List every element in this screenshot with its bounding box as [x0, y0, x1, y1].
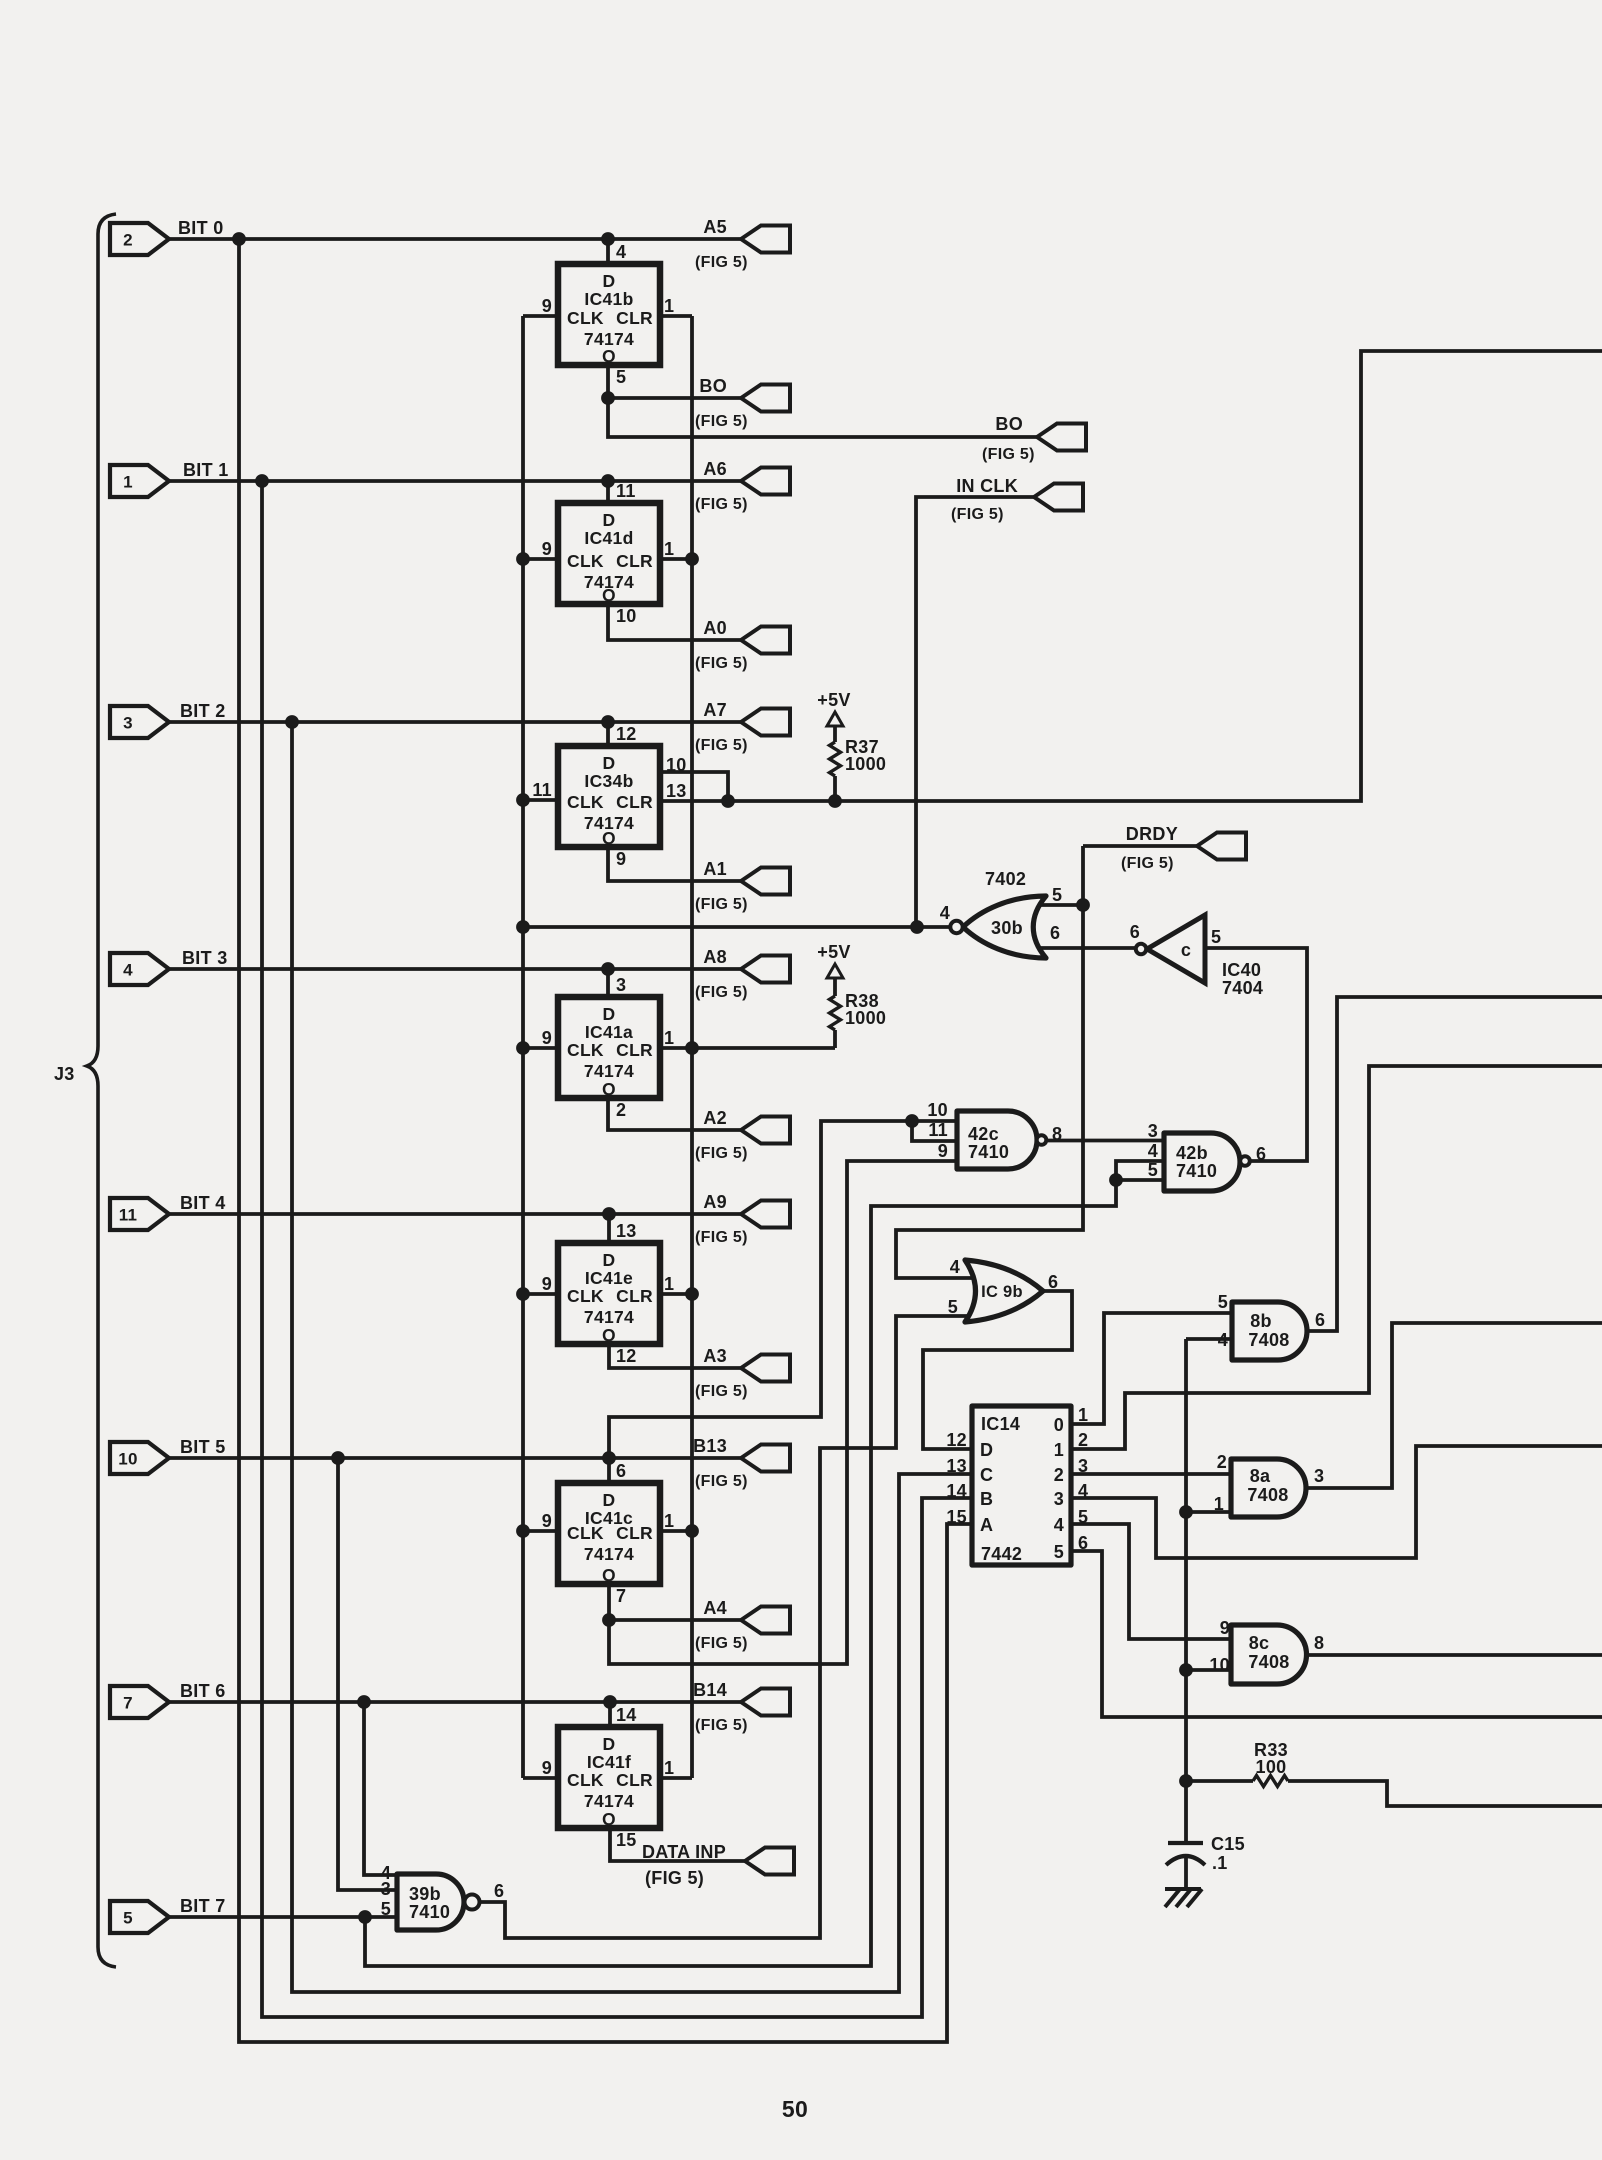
- svg-text:5: 5: [616, 367, 626, 387]
- gate 8c 7408 AND: [1231, 1625, 1307, 1684]
- svg-text:BIT 6: BIT 6: [180, 1681, 226, 1701]
- svg-text:10: 10: [118, 1450, 138, 1469]
- svg-text:D: D: [603, 1004, 616, 1024]
- wire BIT4 net: J3-11 to A9 flag and IC41e pin13: [169, 1214, 741, 1243]
- wire BIT3 net: J3-4 to A8 flag and IC41a pin3: [169, 969, 741, 997]
- svg-text:D: D: [603, 271, 616, 291]
- svg-text:13: 13: [616, 1221, 637, 1241]
- svg-text:2: 2: [1217, 1452, 1227, 1472]
- svg-text:1: 1: [1054, 1440, 1064, 1460]
- wire strobe net: 8b pin4, 8a pin1, 8c pin10, R33, C15: [1186, 1339, 1602, 1890]
- wire IC14 output2 pin3 to 8a pin2: [1073, 1472, 1231, 1476]
- svg-text:9: 9: [542, 1028, 552, 1048]
- svg-text:74174: 74174: [584, 1061, 634, 1081]
- svg-text:D: D: [603, 510, 616, 530]
- svg-text:.1: .1: [1212, 1853, 1228, 1873]
- flag IN CLK to FIG 5: [1034, 484, 1083, 511]
- svg-text:2: 2: [123, 231, 133, 250]
- svg-text:(FIG 5): (FIG 5): [695, 655, 748, 672]
- svg-text:10: 10: [616, 606, 637, 626]
- connector J3 pin 7 BIT 6: [110, 1686, 169, 1718]
- svg-text:1: 1: [1214, 1494, 1224, 1514]
- svg-text:Q: Q: [602, 828, 616, 848]
- svg-text:6: 6: [1050, 923, 1060, 943]
- flip-flop IC41d 74174: [558, 503, 660, 604]
- svg-text:6: 6: [1048, 1272, 1058, 1292]
- svg-text:12: 12: [946, 1430, 967, 1450]
- svg-text:DATA INP: DATA INP: [642, 1842, 726, 1862]
- svg-text:CLK: CLK: [567, 792, 604, 812]
- svg-text:5: 5: [1054, 1542, 1064, 1562]
- svg-text:6: 6: [494, 1881, 504, 1901]
- wire IC34b pins 10 and 13 to R37 and off-page right: [660, 351, 1602, 801]
- svg-text:1: 1: [664, 1028, 674, 1048]
- svg-text:10: 10: [927, 1100, 948, 1120]
- svg-text:12: 12: [616, 724, 637, 744]
- svg-text:CLR: CLR: [616, 1040, 653, 1060]
- wire 8a output pin3 off-page right: [1306, 1323, 1602, 1488]
- svg-text:C: C: [980, 1465, 993, 1485]
- svg-text:1: 1: [664, 1511, 674, 1531]
- svg-text:5: 5: [1148, 1160, 1158, 1180]
- svg-text:Q: Q: [602, 585, 616, 605]
- svg-text:B14: B14: [693, 1680, 727, 1700]
- connector J3 pin 4 BIT 3: [110, 953, 169, 985]
- svg-text:8b: 8b: [1250, 1311, 1272, 1331]
- svg-text:A4: A4: [703, 1598, 727, 1618]
- wire 7402 pin6 to IC40 inverter: [1035, 946, 1136, 950]
- svg-text:7442: 7442: [981, 1544, 1022, 1564]
- svg-text:100: 100: [1256, 1757, 1287, 1777]
- svg-text:Q: Q: [602, 1809, 616, 1829]
- svg-text:(FIG 5): (FIG 5): [695, 496, 748, 513]
- svg-text:5: 5: [948, 1297, 958, 1317]
- svg-text:3: 3: [1054, 1489, 1064, 1509]
- svg-text:8c: 8c: [1249, 1633, 1270, 1653]
- flip-flop IC41b 74174: [558, 264, 660, 365]
- flag A8 to FIG 5: [741, 956, 790, 983]
- svg-text:7408: 7408: [1248, 1330, 1289, 1350]
- svg-text:A0: A0: [703, 618, 727, 638]
- wire 42c output pin8 to 42b pin3: [1046, 1139, 1164, 1143]
- svg-text:3: 3: [123, 714, 133, 733]
- wire 39b output pin6 to IC9b pin5: [480, 1316, 987, 1938]
- wire IC14 output0 pin1 to 8b pin5: [1073, 1313, 1232, 1424]
- svg-text:(FIG 5): (FIG 5): [695, 413, 748, 430]
- svg-text:4: 4: [1054, 1515, 1064, 1535]
- svg-text:BIT 7: BIT 7: [180, 1896, 226, 1916]
- svg-text:A: A: [980, 1515, 993, 1535]
- svg-text:7: 7: [616, 1586, 626, 1606]
- svg-text:7410: 7410: [1176, 1161, 1217, 1181]
- wire BIT6 net: J3-7 to B14 flag, IC41f pin14, 39b pin4: [169, 1702, 741, 1875]
- svg-text:A6: A6: [703, 459, 727, 479]
- svg-text:Q: Q: [602, 1079, 616, 1099]
- flag BO second to FIG 5: [1037, 424, 1086, 451]
- svg-text:A2: A2: [703, 1108, 727, 1128]
- svg-text:3: 3: [1314, 1466, 1324, 1486]
- svg-text:4: 4: [950, 1257, 960, 1277]
- svg-text:(FIG 5): (FIG 5): [695, 1229, 748, 1246]
- svg-text:10: 10: [1209, 1655, 1230, 1675]
- svg-text:50: 50: [782, 2096, 808, 2122]
- svg-text:CLK: CLK: [567, 1523, 604, 1543]
- inverter IC40c 7404 mirrored: [1147, 915, 1205, 983]
- svg-text:1: 1: [1078, 1405, 1088, 1425]
- svg-text:CLK: CLK: [567, 1286, 604, 1306]
- svg-text:BIT 1: BIT 1: [183, 460, 229, 480]
- svg-text:1: 1: [664, 539, 674, 559]
- svg-text:CLK: CLK: [567, 551, 604, 571]
- svg-text:4: 4: [1078, 1481, 1088, 1501]
- flag A3 to FIG 5: [741, 1355, 790, 1382]
- svg-text:1000: 1000: [845, 754, 886, 774]
- svg-text:7404: 7404: [1222, 978, 1263, 998]
- svg-text:8a: 8a: [1250, 1466, 1271, 1486]
- svg-text:BIT 3: BIT 3: [182, 948, 228, 968]
- svg-text:3: 3: [1078, 1456, 1088, 1476]
- flag DRDY to FIG 5: [1197, 833, 1246, 860]
- svg-text:5: 5: [1078, 1507, 1088, 1527]
- svg-text:2: 2: [616, 1100, 626, 1120]
- svg-text:+5V: +5V: [817, 942, 850, 962]
- svg-text:(FIG 5): (FIG 5): [695, 254, 748, 271]
- svg-text:9: 9: [1220, 1618, 1230, 1638]
- svg-text:IC41b: IC41b: [584, 289, 633, 309]
- svg-text:A3: A3: [703, 1346, 727, 1366]
- svg-text:D: D: [603, 1734, 616, 1754]
- gate 30b 7402 NOR mirrored: [963, 896, 1046, 958]
- svg-text:A8: A8: [703, 947, 727, 967]
- svg-text:7408: 7408: [1247, 1485, 1288, 1505]
- svg-text:IC40: IC40: [1222, 960, 1261, 980]
- svg-text:(FIG 5): (FIG 5): [695, 896, 748, 913]
- capacitor C15 .1: [1168, 1841, 1203, 1845]
- flag B13 to FIG 5: [741, 1445, 790, 1472]
- svg-text:(FIG 5): (FIG 5): [645, 1868, 704, 1888]
- svg-text:CLR: CLR: [616, 1286, 653, 1306]
- svg-text:A5: A5: [703, 217, 727, 237]
- svg-text:9: 9: [542, 1274, 552, 1294]
- svg-text:8: 8: [1052, 1124, 1062, 1144]
- svg-text:B13: B13: [693, 1436, 727, 1456]
- wire IC40 pin5 to 42b output pin6: [1205, 948, 1307, 1161]
- flag A0 to FIG 5: [741, 627, 790, 654]
- svg-text:IC41f: IC41f: [587, 1752, 631, 1772]
- svg-text:IN CLK: IN CLK: [956, 476, 1018, 496]
- svg-text:c: c: [1181, 940, 1191, 960]
- svg-text:(FIG 5): (FIG 5): [695, 1635, 748, 1652]
- svg-text:CLK: CLK: [567, 1770, 604, 1790]
- gate 42c 7410 NAND: [957, 1111, 1037, 1169]
- svg-text:5: 5: [1052, 885, 1062, 905]
- svg-text:BO: BO: [995, 414, 1023, 434]
- flip-flop IC41c 74174: [558, 1483, 660, 1584]
- svg-text:13: 13: [666, 781, 687, 801]
- svg-text:9: 9: [542, 1511, 552, 1531]
- flag A4 to FIG 5: [741, 1607, 790, 1634]
- gate 42b 7410 NAND: [1164, 1133, 1240, 1191]
- wire BIT2 net: J3-3 to A7 flag, IC34b pin12, and down to IC14 pin13 C: [169, 722, 972, 1992]
- flag DATA INP to FIG 5: [745, 1848, 794, 1875]
- svg-text:4: 4: [1148, 1141, 1158, 1161]
- svg-text:D: D: [980, 1440, 993, 1460]
- wire IC34b Q pin9 to A1 flag: [608, 846, 741, 881]
- svg-text:BIT 4: BIT 4: [180, 1193, 226, 1213]
- wire BIT0 net: J3-2 to A5 flag, IC41b pin4, and down to IC14 pin15 A: [169, 239, 972, 2042]
- svg-text:5: 5: [1218, 1292, 1228, 1312]
- svg-text:11: 11: [532, 780, 552, 800]
- wire BIT7 net: J3-5 to 39b pin5 and 42b pins4-5: [169, 1161, 1164, 1966]
- svg-text:IC34b: IC34b: [584, 771, 633, 791]
- svg-text:DRDY: DRDY: [1126, 824, 1178, 844]
- svg-text:42c: 42c: [968, 1124, 999, 1144]
- svg-text:1: 1: [664, 1758, 674, 1778]
- svg-text:6: 6: [1256, 1144, 1266, 1164]
- svg-text:IC41e: IC41e: [585, 1268, 633, 1288]
- flag B14 to FIG 5: [741, 1689, 790, 1716]
- svg-text:15: 15: [616, 1830, 637, 1850]
- svg-text:2: 2: [1054, 1465, 1064, 1485]
- wire BIT1 net: J3-1 to A6 flag, IC41d pin11, and down to IC14 pin14 B: [169, 481, 972, 2017]
- svg-text:A9: A9: [703, 1192, 727, 1212]
- wire IC41d Q pin10 to A0 flag: [608, 604, 741, 640]
- svg-text:9: 9: [542, 1758, 552, 1778]
- wire DRDY net: 7402 pin5, DRDY flag, IC9b pin4: [896, 846, 1197, 1278]
- svg-text:IC41d: IC41d: [584, 528, 633, 548]
- wire IC41e Q pin12 to A3 flag: [609, 1345, 741, 1368]
- svg-text:8: 8: [1314, 1633, 1324, 1653]
- svg-text:15: 15: [946, 1507, 967, 1527]
- svg-text:(FIG 5): (FIG 5): [695, 1717, 748, 1734]
- svg-text:BIT 2: BIT 2: [180, 701, 226, 721]
- svg-text:BO: BO: [699, 376, 727, 396]
- resistor R33 100: [1253, 1776, 1288, 1787]
- svg-text:J3: J3: [54, 1064, 75, 1084]
- svg-text:CLK: CLK: [567, 308, 604, 328]
- svg-text:BIT 5: BIT 5: [180, 1437, 226, 1457]
- svg-text:CLR: CLR: [616, 792, 653, 812]
- wire IC14 output1 pin2 off-page right: [1073, 1066, 1602, 1449]
- svg-text:6: 6: [1078, 1533, 1088, 1553]
- svg-text:IC41a: IC41a: [585, 1022, 633, 1042]
- svg-text:Q: Q: [602, 1325, 616, 1345]
- svg-text:D: D: [603, 1250, 616, 1270]
- svg-text:(FIG 5): (FIG 5): [951, 506, 1004, 523]
- svg-text:0: 0: [1054, 1415, 1064, 1435]
- connector J3 pin 2 BIT 0: [110, 223, 169, 255]
- svg-text:13: 13: [946, 1456, 967, 1476]
- flag A2 to FIG 5: [741, 1117, 790, 1144]
- ground symbol: [1165, 1889, 1202, 1907]
- wire IC14 output3 pin4 off-page right: [1073, 1446, 1602, 1558]
- svg-text:CLR: CLR: [616, 551, 653, 571]
- svg-text:(FIG 5): (FIG 5): [1121, 855, 1174, 872]
- svg-text:D: D: [603, 753, 616, 773]
- wire CLK net: clock bus to all 74174 CLK pins, 7402 output, IN CLK flag: [523, 316, 1034, 1778]
- svg-text:11: 11: [119, 1206, 138, 1225]
- connector J3 pin 3 BIT 2: [110, 706, 169, 738]
- svg-text:39b: 39b: [409, 1884, 441, 1904]
- svg-text:1: 1: [664, 1274, 674, 1294]
- wire IC41a Q pin2 to A2 flag: [608, 1099, 741, 1130]
- svg-text:B: B: [980, 1489, 993, 1509]
- svg-text:BIT 0: BIT 0: [178, 218, 224, 238]
- flip-flop IC34b 74174: [558, 746, 660, 847]
- svg-text:2: 2: [1078, 1430, 1088, 1450]
- svg-text:1: 1: [664, 296, 674, 316]
- svg-text:(FIG 5): (FIG 5): [982, 446, 1035, 463]
- gate IC9b OR: [965, 1260, 1043, 1322]
- svg-text:(FIG 5): (FIG 5): [695, 737, 748, 754]
- svg-text:3: 3: [381, 1879, 391, 1899]
- flag A9 to FIG 5: [741, 1201, 790, 1228]
- gate 8b 7408 AND: [1232, 1302, 1307, 1360]
- svg-text:4: 4: [1218, 1330, 1228, 1350]
- svg-text:Q: Q: [602, 1565, 616, 1585]
- svg-text:(FIG 5): (FIG 5): [695, 1473, 748, 1490]
- svg-text:D: D: [603, 1490, 616, 1510]
- svg-text:10: 10: [666, 755, 687, 775]
- wire IC41c Q pin7 to A4 flag and 42c pin9: [609, 1161, 957, 1664]
- svg-text:5: 5: [1211, 927, 1221, 947]
- svg-text:(FIG 5): (FIG 5): [695, 984, 748, 1001]
- svg-text:3: 3: [616, 975, 626, 995]
- svg-text:42b: 42b: [1176, 1143, 1208, 1163]
- connector J3 pin 10 BIT 5: [110, 1442, 169, 1474]
- flag A7 to FIG 5: [741, 709, 790, 736]
- svg-text:5: 5: [381, 1899, 391, 1919]
- svg-text:30b: 30b: [991, 918, 1023, 938]
- svg-text:+5V: +5V: [817, 690, 850, 710]
- svg-text:74174: 74174: [584, 1544, 634, 1564]
- wire IC41f Q pin15 to DATA INP flag: [610, 1829, 745, 1861]
- wire IC9b output pin6 to IC14 pin12 D: [923, 1291, 1072, 1449]
- wire 8c output pin8 off-page right: [1308, 1653, 1602, 1657]
- svg-text:6: 6: [1130, 922, 1140, 942]
- svg-text:9: 9: [542, 296, 552, 316]
- svg-text:A1: A1: [703, 859, 727, 879]
- gate 39b 7410 NAND: [397, 1874, 464, 1930]
- svg-text:CLK: CLK: [567, 1040, 604, 1060]
- J3 connector brace: [87, 214, 116, 1967]
- svg-text:7: 7: [123, 1694, 133, 1713]
- wire IC14 output5 pin6 off-page right: [1073, 1551, 1602, 1717]
- junction dots: [232, 232, 246, 246]
- flag A6 to FIG 5: [741, 468, 790, 495]
- svg-text:1: 1: [123, 473, 133, 492]
- decoder IC14 7442: [972, 1406, 1071, 1565]
- svg-text:14: 14: [946, 1481, 967, 1501]
- svg-text:7410: 7410: [968, 1142, 1009, 1162]
- svg-text:Q: Q: [602, 346, 616, 366]
- svg-text:74174: 74174: [584, 1791, 634, 1811]
- flip-flop IC41f 74174: [558, 1727, 660, 1828]
- svg-text:6: 6: [1315, 1310, 1325, 1330]
- svg-text:1000: 1000: [845, 1008, 886, 1028]
- flag A5 to FIG 5: [741, 226, 790, 253]
- flag BO to FIG 5: [741, 385, 790, 412]
- svg-text:(FIG 5): (FIG 5): [695, 1383, 748, 1400]
- flag A1 to FIG 5: [741, 868, 790, 895]
- flip-flop IC41a 74174: [558, 997, 660, 1098]
- svg-text:4: 4: [940, 903, 950, 923]
- svg-text:12: 12: [616, 1346, 637, 1366]
- svg-text:CLR: CLR: [616, 1770, 653, 1790]
- svg-text:14: 14: [616, 1705, 637, 1725]
- svg-text:4: 4: [616, 242, 626, 262]
- svg-text:A7: A7: [703, 700, 727, 720]
- wire 8b output pin6 off-page right: [1307, 997, 1602, 1331]
- connector J3 pin 1 BIT 1: [110, 465, 169, 497]
- svg-text:C15: C15: [1211, 1834, 1245, 1854]
- svg-text:IC 9b: IC 9b: [981, 1283, 1023, 1301]
- svg-text:11: 11: [928, 1120, 948, 1140]
- svg-text:(FIG 5): (FIG 5): [695, 1145, 748, 1162]
- svg-text:7408: 7408: [1248, 1652, 1289, 1672]
- connector J3 pin 11 BIT 4: [110, 1198, 169, 1230]
- svg-text:7410: 7410: [409, 1902, 450, 1922]
- svg-text:74174: 74174: [584, 1307, 634, 1327]
- wire IC14 output4 pin5 to 8c pin9: [1073, 1524, 1231, 1639]
- svg-text:IC14: IC14: [981, 1414, 1020, 1434]
- svg-text:5: 5: [123, 1909, 133, 1928]
- svg-text:9: 9: [938, 1141, 948, 1161]
- svg-text:3: 3: [1148, 1121, 1158, 1141]
- svg-text:CLR: CLR: [616, 1523, 653, 1543]
- svg-text:4: 4: [123, 961, 133, 980]
- svg-text:CLR: CLR: [616, 308, 653, 328]
- wire BIT5 net: J3-10 to B13 flag, IC41c pin6, 39b pin3, 42c pins10-11: [169, 1121, 957, 1890]
- flip-flop IC41e 74174: [558, 1243, 660, 1344]
- wire IC41b Q pin5 to BO flags: [608, 365, 1037, 437]
- svg-text:9: 9: [616, 849, 626, 869]
- svg-text:11: 11: [616, 481, 636, 501]
- wire CLR net: clear bus to 74174 CLR pins and R38: [660, 316, 835, 1778]
- gate 8a 7408 AND: [1231, 1459, 1306, 1517]
- svg-text:6: 6: [616, 1461, 626, 1481]
- svg-text:7402: 7402: [985, 869, 1026, 889]
- connector J3 pin 5 BIT 7: [110, 1901, 169, 1933]
- svg-text:9: 9: [542, 539, 552, 559]
